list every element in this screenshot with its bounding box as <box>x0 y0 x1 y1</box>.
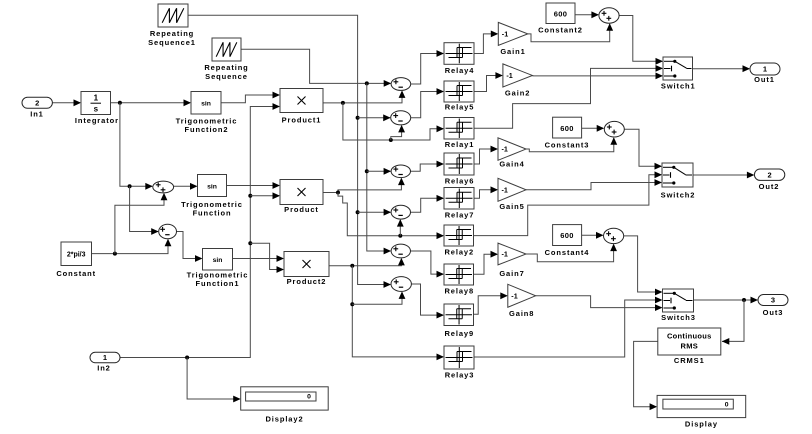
wire Switch3 to Out3 <box>694 299 757 301</box>
port Out2 <box>754 169 784 180</box>
sum compare 6 <box>391 277 411 292</box>
product block <box>280 180 323 205</box>
svg-text:1: 1 <box>103 353 107 362</box>
svg-text:Continuous: Continuous <box>667 332 712 341</box>
svg-text:sin: sin <box>213 257 223 264</box>
svg-text:0: 0 <box>307 394 311 401</box>
svg-text:600: 600 <box>560 124 573 133</box>
wire Relay8 to Gain7 <box>474 254 498 274</box>
wire Relay3 to Switch3 control <box>474 300 662 357</box>
wire constant branch to Sum angle B plus <box>115 194 164 254</box>
wire Sum600-3 to Switch3 in1 <box>624 236 662 292</box>
svg-text:In1: In1 <box>30 110 44 119</box>
display block <box>657 395 746 417</box>
node RS1 to Sum4 <box>356 210 360 214</box>
svg-text:Constant2: Constant2 <box>538 26 583 35</box>
wire Switch2 to Out2 <box>693 174 753 176</box>
svg-text:Constant3: Constant3 <box>545 141 590 150</box>
wire Gain4 to Sum600-2 plus <box>526 138 614 152</box>
gain Gain5 <box>498 178 526 201</box>
svg-text:s: s <box>94 105 99 114</box>
node branch to Sum angle C <box>128 184 132 188</box>
svg-text:Product: Product <box>284 205 319 214</box>
wire Sum1 to Relay4 <box>411 54 443 85</box>
wire In2 branch to Display2 <box>187 358 240 400</box>
wire Relay5 to Gain2 <box>474 76 502 92</box>
svg-text:Out3: Out3 <box>763 308 784 317</box>
svg-text:CRMS1: CRMS1 <box>674 356 705 365</box>
wire Product branch staircase to Relay2 <box>338 193 443 236</box>
svg-text:Gain1: Gain1 <box>500 47 525 56</box>
svg-text:Gain7: Gain7 <box>499 269 524 278</box>
constant2 600 <box>546 3 575 24</box>
svg-text:Function1: Function1 <box>196 279 240 288</box>
wire Gain7 to Sum600-3 plus <box>526 245 614 262</box>
trig function sin <box>198 175 227 197</box>
wire Relay4 to Gain1 <box>474 34 497 54</box>
wire Switch1 to Out1 <box>693 68 750 70</box>
svg-text:-1: -1 <box>501 250 507 259</box>
svg-text:sin: sin <box>207 183 217 190</box>
gain Gain7 <box>498 243 526 265</box>
wire Product2 branch to Relay3 <box>352 266 443 357</box>
node Product1 branch <box>341 101 345 105</box>
wire In2 bus to Product2 in2 <box>250 243 283 269</box>
svg-text:2: 2 <box>35 99 39 108</box>
trig function1 sin <box>203 249 233 271</box>
wire RS1 branch to Sum4 <box>358 211 391 213</box>
svg-text:Relay4: Relay4 <box>445 66 475 75</box>
svg-text:Gain4: Gain4 <box>499 160 524 169</box>
svg-text:Relay6: Relay6 <box>445 177 475 186</box>
wire Integrator to Trigonometric Function2 <box>111 102 191 104</box>
wire Relay6 to Gain4 <box>474 149 497 164</box>
sum compare 1 <box>391 78 411 91</box>
wire Sum600-1 to Switch1 in1 <box>619 16 662 62</box>
svg-text:Gain5: Gain5 <box>499 202 524 211</box>
continuous RMS block CRMS1 <box>658 328 721 355</box>
svg-text:Switch3: Switch3 <box>661 313 696 322</box>
wire Sum2 to Relay5 <box>411 92 443 118</box>
sum compare 2 <box>391 111 411 125</box>
wire In2 bus to Product1 <box>120 107 279 358</box>
svg-text:-1: -1 <box>506 71 512 80</box>
svg-text:Switch1: Switch1 <box>661 82 696 91</box>
wire Trigonometric Function1 to Product2 <box>233 258 284 260</box>
wire branch to Sum6 minus <box>352 292 402 304</box>
wire Repeating Sequence1 carrier bus <box>188 15 390 284</box>
node constant branch <box>113 252 117 256</box>
node Product2 branch <box>350 264 354 268</box>
port Out1 <box>750 63 780 75</box>
svg-text:1: 1 <box>94 94 99 103</box>
svg-text:RMS: RMS <box>681 342 699 351</box>
wire Relay1 to Switch1 control <box>474 68 662 128</box>
svg-text:Integrator: Integrator <box>75 116 119 125</box>
svg-text:3: 3 <box>771 296 775 305</box>
svg-text:Relay2: Relay2 <box>444 248 474 257</box>
relay R4 <box>444 43 474 65</box>
node In2 bus to Product <box>248 194 252 198</box>
wire Product output to Sum3 minus <box>323 179 401 193</box>
svg-text:Product2: Product2 <box>287 277 327 286</box>
node Product1 line to Sum2 minus <box>389 138 393 142</box>
gain Gain1 <box>498 22 528 45</box>
wire Constant to Sum angle C minus <box>92 240 169 254</box>
relay R6 <box>444 153 474 175</box>
svg-text:Relay9: Relay9 <box>444 329 474 338</box>
wire Sum6 to Relay9 <box>411 284 443 315</box>
svg-text:Gain2: Gain2 <box>505 88 530 97</box>
product1 block <box>280 89 323 113</box>
wire CRMS1 to Display <box>634 341 658 406</box>
wire Product1 output to Sum1 minus <box>323 91 402 103</box>
node In2 bus to Product2 <box>248 241 252 245</box>
gain Gain2 <box>503 64 533 87</box>
svg-text:Relay8: Relay8 <box>444 286 474 295</box>
svg-text:Function: Function <box>193 209 232 218</box>
repeating sequence1 source <box>158 4 188 27</box>
wire RS1 branch to Sum2 <box>358 117 390 119</box>
svg-text:Gain8: Gain8 <box>509 309 534 318</box>
svg-text:Display: Display <box>685 420 718 429</box>
svg-text:-1: -1 <box>511 291 517 300</box>
wire In2 bus to Product in2 <box>250 195 279 197</box>
sum 600 row2 <box>604 121 624 137</box>
relay R5 <box>444 81 474 102</box>
wire branch to Sum angle C <box>130 186 158 231</box>
svg-text:Sequence: Sequence <box>205 72 248 81</box>
svg-text:Relay5: Relay5 <box>445 102 475 111</box>
sum 600 row3 <box>604 228 624 243</box>
svg-text:Relay1: Relay1 <box>445 140 475 149</box>
wire Product1 branch to Relay1 <box>343 103 443 140</box>
svg-text:Relay7: Relay7 <box>445 210 475 219</box>
port Out3 <box>758 295 788 306</box>
svg-text:Repeating: Repeating <box>150 29 194 38</box>
node RS carrier to Sum3 <box>365 169 369 173</box>
svg-text:-1: -1 <box>502 30 508 39</box>
constant 2*pi/3 <box>61 242 92 266</box>
wire Gain2 to Switch1 in3 <box>532 75 662 77</box>
sum compare 3 <box>391 165 410 178</box>
wire branch to Sum2 minus <box>391 126 402 140</box>
repeating sequence source <box>212 38 241 61</box>
display2 block <box>241 387 329 410</box>
wire Constant4 to Sum600-3 <box>582 234 603 236</box>
relay R3 <box>444 346 474 369</box>
svg-text:Repeating: Repeating <box>204 63 248 72</box>
svg-text:Switch2: Switch2 <box>661 191 696 200</box>
svg-text:Display2: Display2 <box>265 414 303 423</box>
switch Switch3 <box>663 289 694 312</box>
svg-text:2: 2 <box>768 170 772 179</box>
svg-text:0: 0 <box>725 402 729 409</box>
wire Switch3 branch to CRMS1 <box>722 300 744 341</box>
svg-text:Constant: Constant <box>56 269 96 278</box>
node In2 to Display2 <box>185 356 189 360</box>
wire Sum600-2 to Switch2 in1 <box>624 129 661 166</box>
svg-text:600: 600 <box>560 231 573 240</box>
constant3 600 <box>553 117 582 138</box>
wire Relay7 to Gain5 <box>474 190 497 199</box>
sum angle B <box>153 181 174 193</box>
svg-text:2*pi/3: 2*pi/3 <box>67 251 86 258</box>
wire Sum3 to Relay6 <box>411 164 444 171</box>
port In2 <box>90 352 120 362</box>
sum compare 5 <box>391 244 410 258</box>
sum angle C <box>159 224 177 239</box>
svg-text:Relay3: Relay3 <box>445 370 475 379</box>
product2 block <box>284 252 329 277</box>
node Switch3 output branch <box>742 298 746 302</box>
relay R2 <box>444 225 474 246</box>
wire Sum4 to Relay7 <box>411 198 444 212</box>
integrator U1 <box>81 92 111 115</box>
wire Relay9 to Gain8 <box>474 296 507 315</box>
wire Gain5 to Switch2 in3 <box>526 183 661 190</box>
relay R1 <box>444 118 474 140</box>
svg-text:Out1: Out1 <box>754 75 775 84</box>
gain Gain4 <box>498 138 526 161</box>
constant4 600 <box>553 225 582 246</box>
node RS1 to Sum2 <box>356 116 360 120</box>
wire Gain8 to Switch3 in3 <box>536 296 662 308</box>
wire branch to Sum4 minus <box>399 220 401 236</box>
svg-text:Constant4: Constant4 <box>545 248 590 257</box>
svg-text:Out2: Out2 <box>759 182 780 191</box>
port In1 <box>22 97 52 108</box>
node Product line to Sum4 minus <box>398 234 402 238</box>
relay R9 <box>444 304 474 326</box>
wire Gain1 to Sum600-1 plus <box>528 24 610 42</box>
wire integrator branch to Sum angle B <box>120 103 152 187</box>
svg-text:-1: -1 <box>501 185 507 194</box>
wire Repeating Sequence carrier to Sum1 <box>241 49 390 83</box>
wire Sum angle B to Trigonometric Function <box>174 185 197 187</box>
node integrator branch <box>118 101 122 105</box>
svg-text:-1: -1 <box>501 145 507 154</box>
wire Trigonometric Function to Product <box>227 185 280 187</box>
svg-text:1: 1 <box>763 65 767 74</box>
node Product branch <box>336 191 340 195</box>
gain Gain8 <box>508 284 536 307</box>
node RS carrier branch <box>365 81 369 85</box>
sum 600 row1 <box>599 8 619 23</box>
wire Sum angle C to Trigonometric Function1 <box>177 232 202 259</box>
wire Relay2 to Switch2 control <box>474 175 662 236</box>
svg-text:Function2: Function2 <box>185 125 229 134</box>
switch Switch1 <box>663 57 693 80</box>
relay R7 <box>444 188 474 210</box>
wire In1 to Integrator <box>52 102 80 104</box>
svg-text:Sequence1: Sequence1 <box>148 38 196 47</box>
trig function2 sin <box>191 92 221 115</box>
wire RS carrier bus down to Sum5 <box>367 83 391 251</box>
wire RS carrier branch to Sum3 <box>367 170 391 172</box>
svg-text:sin: sin <box>201 100 211 107</box>
wire Constant2 to Sum600-1 <box>575 14 598 16</box>
svg-text:Product1: Product1 <box>282 116 322 125</box>
wire Trig2 to Product1 <box>221 95 279 103</box>
switch Switch2 <box>662 163 693 187</box>
svg-text:600: 600 <box>554 10 567 19</box>
relay R8 <box>444 264 474 285</box>
wire Constant3 to Sum600-2 <box>582 127 604 129</box>
svg-text:In2: In2 <box>97 364 111 373</box>
wire Sum5 to Relay8 <box>411 251 444 274</box>
sum compare 4 <box>391 205 410 219</box>
node Product2 line to Sum6 minus <box>350 302 354 306</box>
wire Product2 output to Sum5 minus <box>329 259 401 266</box>
